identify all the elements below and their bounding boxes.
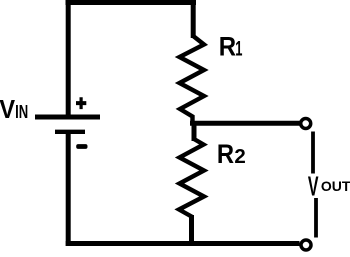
battery VIN negative plate: [55, 130, 85, 134]
svg-text:1: 1: [235, 37, 242, 61]
terminal: VOUT - (open circle): [301, 240, 311, 250]
wire: R2 bottom lead: [189, 215, 194, 246]
wire: bottom horizontal: [66, 241, 300, 246]
resistor R2: [179, 139, 204, 222]
wire: left vertical lower (VIN - lead): [66, 132, 71, 246]
svg-text:V: V: [308, 170, 319, 201]
wire: top horizontal: [66, 0, 197, 5]
svg-text:IN: IN: [15, 102, 28, 122]
wire: VOUT lower stub: [314, 198, 318, 238]
plus polarity mark: [76, 97, 86, 109]
svg-text:2: 2: [234, 145, 245, 168]
wire: VOUT upper stub: [311, 132, 315, 174]
wire: right vertical (R1 top lead): [191, 0, 196, 38]
svg-text:V: V: [0, 94, 16, 124]
svg-text:OUT: OUT: [321, 178, 350, 194]
svg-text:R: R: [219, 31, 236, 61]
wire: left vertical upper (VIN + lead): [66, 0, 71, 115]
battery VIN positive plate: [35, 115, 100, 120]
wire: middle horizontal (divider tap to VOUT +): [190, 121, 300, 126]
wire: R2 top lead: [192, 121, 197, 141]
svg-text:R: R: [217, 139, 234, 169]
terminal: VOUT + (open circle): [301, 119, 311, 129]
resistor R1: [180, 36, 205, 124]
minus polarity mark: [76, 144, 87, 149]
